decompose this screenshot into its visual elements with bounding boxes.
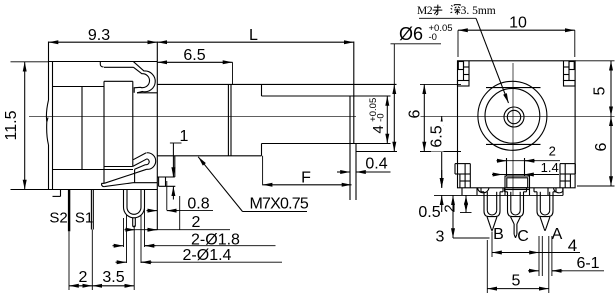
body interior horizontal upper — [53, 86, 105, 88]
svg-text:3: 3 — [436, 229, 445, 246]
dimension 2 keyway line — [497, 160, 507, 162]
extension lines right view left side — [420, 83, 461, 85]
corner lug bottom-right — [560, 163, 575, 165]
svg-text:1: 1 — [180, 128, 189, 145]
dimension F extension — [262, 156, 264, 186]
pin C fork — [504, 188, 506, 192]
M2 thread hole circle — [504, 107, 524, 127]
round pin center wire — [132, 218, 134, 226]
barrel nut circle — [485, 88, 540, 143]
round pin base block — [123, 190, 125, 200]
svg-text:B: B — [493, 226, 504, 243]
dimension 6.5 right-view line — [441, 116, 443, 188]
extension line x179.7 — [179, 196, 181, 230]
svg-text:2: 2 — [549, 144, 556, 159]
dimension 9.3 line — [49, 41, 158, 43]
seat plane line — [434, 194, 563, 196]
threaded barrel bottom edge — [157, 155, 261, 157]
dimension L line — [157, 41, 353, 43]
svg-text:S2: S2 — [49, 210, 67, 227]
svg-text:3.5: 3.5 — [102, 269, 124, 286]
dimension 10 extensions — [457, 30, 459, 57]
dimension 2 pin vertical line — [465, 195, 467, 212]
dimension 10 line — [458, 29, 575, 31]
svg-text:6.5: 6.5 — [429, 125, 446, 147]
dimension 6.5 line — [157, 61, 232, 63]
svg-text:2-Ø1.8: 2-Ø1.8 — [191, 231, 240, 248]
jack body right edge with extensions — [156, 42, 158, 230]
jack body left face (double line) with 9.3 extension — [48, 42, 50, 101]
extension lines pin inner — [126, 215, 128, 263]
dimension 6.5 bottom arrow — [441, 170, 443, 188]
svg-text:-0: -0 — [429, 32, 437, 43]
dimension 5 right extensions — [575, 60, 614, 62]
svg-text:F: F — [301, 170, 311, 187]
label M7X0.75 leader — [198, 157, 242, 212]
seat bump right — [547, 188, 549, 196]
top spring hook inner — [134, 67, 150, 93]
bottom spring hook inner — [146, 159, 150, 165]
cavity right line — [132, 81, 134, 166]
dimension 6.5 right-view text — [431, 122, 444, 152]
slot box lower verticals — [504, 190, 506, 195]
inner sleeve top — [262, 95, 351, 97]
bottom spring arm inner edge — [135, 165, 146, 170]
top spring curl tab — [100, 62, 103, 67]
svg-text:5: 5 — [512, 273, 521, 290]
cavity top line — [104, 80, 133, 82]
dimension 2 bottom line — [69, 285, 92, 287]
jack body top edge — [49, 61, 158, 63]
extension lines for 4 dim — [350, 95, 391, 97]
corner lug top-left — [463, 61, 465, 81]
svg-text:2: 2 — [192, 214, 201, 231]
threaded barrel top edge with extension — [157, 83, 396, 85]
housing bottom curve left — [478, 188, 490, 193]
dimension 3.5 line — [92, 285, 134, 287]
d6 dimension line — [393, 44, 395, 85]
extension line pin S1 — [91, 230, 93, 291]
dimension 0.5 arrow — [441, 195, 443, 212]
dimension 11.5 extension top — [11, 61, 49, 63]
round pin inner U — [127, 199, 141, 214]
svg-text:0.4: 0.4 — [365, 156, 387, 173]
pin B fork — [480, 188, 482, 192]
svg-text:5: 5 — [592, 86, 609, 95]
bottom spring lower ledge — [133, 182, 157, 184]
bottom spring upper diagonal — [133, 153, 146, 160]
dimension 2-d1.4 line — [116, 261, 127, 263]
terminal slot box — [505, 176, 530, 190]
nut flat bottom — [486, 143, 541, 145]
extension line pin S2 — [68, 231, 70, 290]
pin S1 — [90, 190, 92, 230]
top spring hook outer — [134, 62, 156, 93]
label 1 underline and arrows — [170, 142, 182, 144]
svg-text:2: 2 — [442, 204, 459, 212]
svg-text:11.5: 11.5 — [3, 110, 20, 140]
keyway sides — [506, 158, 508, 176]
svg-text:S1: S1 — [75, 210, 93, 227]
nut flat top — [486, 87, 541, 89]
corner lug bottom-left — [455, 163, 470, 165]
M2 tap hole circle — [507, 110, 520, 123]
dimension 3 line — [452, 195, 454, 238]
pin S2 — [68, 190, 70, 232]
dimension 5 right line — [610, 61, 612, 117]
housing outline square — [458, 61, 576, 188]
dimension F line — [263, 184, 352, 186]
dimension 6 left line — [423, 84, 425, 151]
extension lines pin outer — [123, 218, 125, 247]
inner sleeve bottom — [262, 143, 351, 145]
svg-text:9.3: 9.3 — [88, 27, 110, 44]
dimension 11.5 line — [24, 62, 26, 190]
svg-text:4: 4 — [370, 125, 387, 133]
left foot block — [60, 190, 62, 197]
pin A fork — [533, 188, 535, 192]
round pin outer U — [124, 199, 145, 218]
top spring hook lower edge — [137, 92, 157, 94]
bottom spring arm top edge — [104, 169, 146, 183]
svg-text:C: C — [517, 228, 529, 245]
sleeve tip second edge — [353, 42, 355, 144]
dimension 6 right extension — [577, 185, 615, 187]
rear locating peg — [157, 176, 175, 178]
svg-text:M7X0.75: M7X0.75 — [250, 195, 309, 212]
svg-text:2-Ø1.4: 2-Ø1.4 — [183, 247, 232, 264]
svg-text:6: 6 — [407, 109, 424, 118]
extension lines pins bottom — [486, 240, 488, 293]
dimension 0.4 arrows — [337, 171, 350, 173]
top spring bar bottom — [104, 66, 134, 68]
svg-text:6.5: 6.5 — [183, 47, 205, 64]
svg-text:6: 6 — [593, 142, 610, 151]
cavity left line — [103, 81, 105, 183]
thread relief double line — [227, 84, 229, 155]
svg-text:0.8: 0.8 — [187, 195, 209, 212]
jack body bottom edge — [49, 189, 158, 191]
bottom spring inner diagonal — [133, 159, 147, 167]
dimension 6 right line — [610, 116, 612, 186]
svg-text:A: A — [552, 226, 563, 243]
body interior vertical — [81, 87, 83, 170]
housing bottom curve right — [554, 188, 563, 193]
bottom spring arm bottom edge — [104, 183, 133, 187]
label M2 underline and leader — [419, 17, 476, 19]
dimension 2-d1.8 line — [113, 245, 124, 247]
dimension 5 bottom line — [487, 288, 549, 290]
svg-text:4: 4 — [568, 236, 577, 255]
dimension 0.8 arrows — [147, 210, 158, 212]
bottom spring hook outer — [147, 153, 156, 170]
dimension 4 bottom line — [492, 252, 503, 254]
svg-text:3. 5mm: 3. 5mm — [461, 5, 496, 17]
dimension 4+0.05 text — [368, 98, 387, 134]
svg-text:Ø6: Ø6 — [399, 24, 423, 44]
body interior horizontal lower — [53, 169, 134, 171]
cavity bottom line — [104, 166, 133, 168]
dimension 6-1 line — [528, 270, 539, 272]
svg-text:L: L — [249, 27, 258, 44]
vertical centerline right view — [512, 63, 514, 196]
dimension 2 rear line — [125, 229, 136, 231]
svg-text:0.5: 0.5 — [418, 204, 440, 221]
svg-text:10: 10 — [509, 15, 527, 32]
barrel step front — [261, 84, 263, 96]
bottom spring foot curl — [102, 183, 105, 186]
d6 underline — [391, 43, 442, 45]
svg-text:6-1: 6-1 — [576, 255, 599, 272]
svg-text:M2: M2 — [417, 5, 433, 17]
barrel outer circle — [478, 81, 547, 150]
dimension 0.8 extension — [166, 181, 168, 210]
seat bump left — [461, 188, 463, 196]
horizontal centerline right view — [421, 115, 615, 117]
svg-text:2: 2 — [79, 269, 88, 286]
dimension 1.4 line — [492, 174, 503, 176]
dimension 4+0.05 line — [386, 96, 388, 144]
extension line for 6.5 right — [232, 62, 234, 84]
extension bottom for d6 — [356, 151, 397, 153]
svg-text:-0: -0 — [375, 113, 386, 121]
dimension 11.5 extension bottom — [11, 189, 49, 191]
extension line round pin — [133, 226, 135, 291]
svg-text:1.4: 1.4 — [541, 160, 559, 175]
center axis line — [29, 115, 356, 117]
sleeve tip front edge — [349, 96, 351, 200]
corner lug top-right — [563, 61, 565, 81]
